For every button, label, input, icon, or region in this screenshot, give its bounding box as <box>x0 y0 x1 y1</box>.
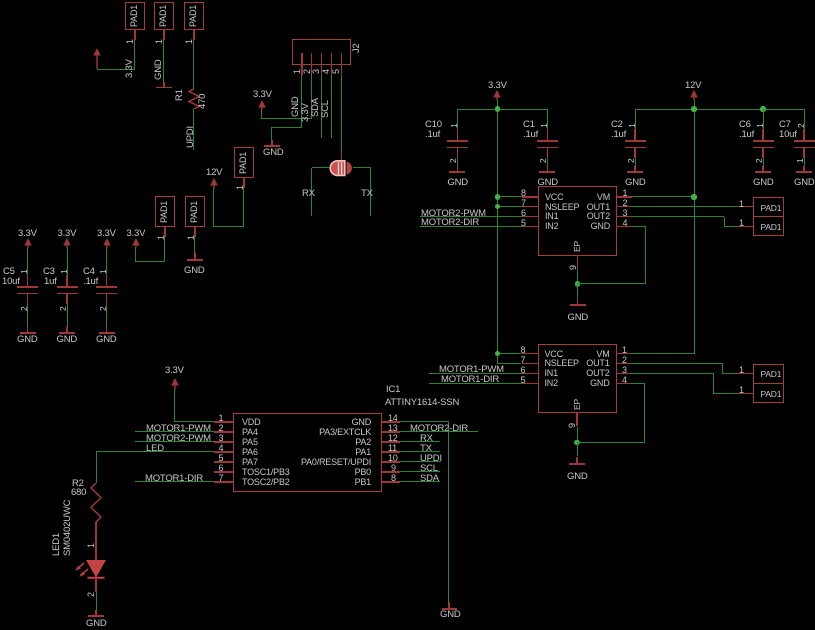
wire jumper left (RX) <box>312 167 330 168</box>
TX net label <box>361 189 373 199</box>
R2 name <box>72 479 84 489</box>
pin 2 label <box>20 306 29 311</box>
J2 pin 4 <box>331 53 332 65</box>
pin 1 label <box>450 123 459 128</box>
net MOTOR2-DIR wire <box>400 431 478 432</box>
net MOTOR1-PWM wire <box>135 431 214 432</box>
pin 2 label <box>59 306 68 311</box>
J2 pin 2 <box>311 53 312 65</box>
3.3V label <box>58 229 77 239</box>
wire to C5 <box>27 247 28 277</box>
supply +3.3V symbol <box>92 48 102 70</box>
net MOTOR1-DIR wire <box>135 481 214 482</box>
wire U2 OUT1 to pad <box>632 206 738 207</box>
capacitor C10 <box>457 129 458 140</box>
wire LED1 to GND <box>95 579 96 592</box>
wire rail to C7 <box>804 109 805 129</box>
connector pad PAD1 (PAD A) <box>125 2 145 30</box>
wire pin4 GND loop <box>632 226 646 227</box>
J2 pin5 wire to solder jumper <box>341 75 342 152</box>
C7 name <box>779 120 791 130</box>
pin label top <box>756 123 765 128</box>
connector pad PAD1 <box>753 383 784 403</box>
J2 pin 5 number <box>332 69 341 74</box>
connector pad PAD1 (PAD B) <box>154 2 174 30</box>
pin label bottom <box>755 158 764 163</box>
pin 1 label of PAD C <box>185 39 194 44</box>
wire IC1 GND pin14 <box>400 421 449 422</box>
SCL net label (rotated) <box>321 100 330 118</box>
pin 2 label <box>449 158 458 163</box>
R1 value 470 <box>198 94 207 109</box>
pin 1 label <box>60 269 69 274</box>
pin 1 stub <box>243 178 244 188</box>
connector pad PAD1 <box>753 364 784 384</box>
ground symbol <box>271 140 272 146</box>
wire 3.3V to U3 NSLEEP <box>497 363 521 364</box>
wire rail to C10 <box>457 109 458 129</box>
GND net label (rotated) <box>154 59 163 80</box>
LED label <box>146 444 164 454</box>
wire PAD F to GND <box>194 237 195 253</box>
connector J2 <box>292 39 351 65</box>
ground symbol <box>457 166 458 172</box>
U2 pin 5 IN2 <box>522 226 538 227</box>
net LED wire <box>96 451 214 452</box>
U2 EP pin 9 <box>577 256 578 269</box>
IC1 pin 2 PA4 <box>214 431 233 432</box>
C2 name <box>611 120 623 130</box>
U3 EP label (rotated) <box>573 399 582 410</box>
wire <box>136 261 165 262</box>
R2 value 680 <box>71 488 86 498</box>
pin label top <box>797 123 806 128</box>
U2 pin 4 GND <box>617 226 632 227</box>
wire rail to C1 <box>547 109 548 129</box>
wire <box>214 226 244 227</box>
wire EP down <box>577 427 578 443</box>
GND label <box>440 610 461 620</box>
capacitor C7 <box>803 129 804 140</box>
supply +3.3V symbol for C4 <box>102 238 112 248</box>
junction <box>575 281 580 286</box>
C4 name <box>83 267 95 277</box>
SDA label <box>420 474 439 484</box>
ground symbol <box>66 327 67 333</box>
ground symbol <box>577 298 578 305</box>
3.3V label <box>165 366 184 376</box>
supply +3.3V symbol for IC1 <box>170 378 180 391</box>
GND label <box>57 335 78 345</box>
U2 pin 3 OUT2 <box>617 216 632 217</box>
wire rail to C2 <box>635 109 636 129</box>
wire jumper right (TX) <box>353 167 372 168</box>
connector pad PAD1 (E) <box>155 196 175 227</box>
ground symbol <box>448 602 449 609</box>
IC1 pin 8 PB1 <box>382 481 400 482</box>
wire <box>213 189 214 227</box>
solder jumper SJ1 <box>328 159 355 177</box>
C7 value <box>779 130 797 140</box>
pin 1 label <box>20 269 29 274</box>
wire to GND <box>27 304 28 327</box>
wire to GND <box>106 304 107 327</box>
pin 1 label <box>87 543 96 548</box>
3.3V label <box>127 229 146 239</box>
U3 pin 7 NSLEEP <box>522 363 538 364</box>
supply +3.3V symbol for C5 <box>23 238 33 248</box>
pin label top <box>628 123 637 128</box>
ground symbol <box>547 166 548 172</box>
wire U2 OUT2 to pad <box>632 216 725 217</box>
ground symbol <box>106 327 107 333</box>
3.3V rail wire <box>457 109 547 110</box>
IC1 pin 12 PA2 <box>382 441 400 442</box>
pin 1 stub <box>164 227 165 237</box>
MOTOR2-DIR label <box>410 424 468 434</box>
C10 value <box>425 130 440 140</box>
wire <box>311 168 312 217</box>
motor driver IC U3 <box>538 344 617 414</box>
net SCL wire <box>400 471 440 472</box>
J2 pin 3 <box>321 53 322 65</box>
capacitor C1 <box>547 129 548 140</box>
J2 pin3 SDA wire <box>321 75 322 138</box>
wire to C3 <box>67 247 68 277</box>
capacitor C5 <box>27 275 28 286</box>
ground symbol <box>27 327 28 333</box>
net MOTOR2-PWM wire <box>135 441 214 442</box>
pin 1 stub <box>194 227 195 237</box>
net label MOTOR2-PWM <box>420 216 522 217</box>
net SDA wire <box>400 481 440 482</box>
IC1 pin 5 PA7 <box>214 461 233 462</box>
C6 name <box>739 120 751 130</box>
3.3V label <box>97 229 116 239</box>
wire EP to ground <box>577 284 578 298</box>
wire to GND <box>67 304 68 327</box>
connector pad PAD1 (F) <box>185 196 205 227</box>
wire PAD C to R1 <box>193 40 194 89</box>
wire to C4 <box>106 247 107 277</box>
wire to GND <box>804 158 805 166</box>
J2 pin1 wire to GND <box>301 75 302 127</box>
pin 1 label of PAD B <box>155 39 164 44</box>
C5 name <box>3 267 15 277</box>
U2 pin 6 IN1 <box>522 216 538 217</box>
GND label <box>753 178 774 188</box>
12V rail wire <box>635 109 804 110</box>
wire U3 VM to 12V <box>631 353 695 354</box>
GND label <box>794 178 815 188</box>
GND label <box>625 178 646 188</box>
pin 9 label <box>568 423 577 428</box>
net UPDI wire <box>400 461 441 462</box>
pad pin stub <box>737 206 753 207</box>
MOTOR2-PWM label <box>146 434 211 444</box>
UPDI net label (rotated) <box>186 126 195 148</box>
ground symbol <box>576 457 577 464</box>
wire PAD D to 12V <box>243 188 244 227</box>
U3 EP pin 9 <box>576 413 577 426</box>
GND label <box>537 178 558 188</box>
pin 1 stub of PAD A <box>134 30 135 40</box>
LED1 name (rotated) <box>52 533 61 556</box>
pin 1 stub of PAD B <box>163 30 164 40</box>
U2 pin 2 OUT1 <box>617 206 632 207</box>
pin 1 label <box>236 185 245 190</box>
net TX wire <box>400 451 440 452</box>
connector pad PAD1 (D) <box>234 147 254 178</box>
SCL label <box>420 464 438 474</box>
R1 name label <box>175 89 184 101</box>
microcontroller IC1 <box>233 413 382 492</box>
pin 9 label <box>569 265 578 270</box>
resistor R2 <box>90 483 102 522</box>
3.3V vertical wire <box>497 100 498 364</box>
wire 3.3V to U3 VCC <box>497 353 521 354</box>
GND label <box>96 335 117 345</box>
C3 name <box>43 267 55 277</box>
net label MOTOR1-PWM <box>429 373 522 374</box>
pin 1 label <box>99 269 108 274</box>
IC1 pin 6 TOSC1/PB3 <box>214 471 233 472</box>
wire to GND <box>547 158 548 166</box>
net RX wire <box>400 441 440 442</box>
pin 2 label <box>539 158 548 163</box>
IC1 pin 3 PA5 <box>214 441 233 442</box>
capacitor C3 <box>66 275 67 286</box>
J2 pin 1 number <box>293 69 302 74</box>
U3 pin 1 VM <box>617 353 632 354</box>
J2 pin 3 number <box>312 69 321 74</box>
U3 pin 6 IN1 <box>522 373 538 374</box>
wire <box>271 127 272 140</box>
wire <box>272 127 302 128</box>
pad pin stub <box>737 393 753 394</box>
LED1 value SM0402UWC (rotated) <box>63 500 72 556</box>
wire PAD B to GND <box>163 40 164 82</box>
supply +3.3V symbol <box>492 90 502 101</box>
ground symbol <box>95 610 96 616</box>
GND label <box>567 472 588 482</box>
connector pad PAD1 <box>753 216 784 236</box>
IC1 name <box>386 385 400 395</box>
U2 pin 7 NSLEEP <box>522 206 538 207</box>
U3 pin 4 GND <box>617 383 632 384</box>
wire PAD A to 3.3V <box>134 40 135 69</box>
12V label <box>206 168 222 178</box>
junction <box>574 440 579 445</box>
supply +3.3V symbol <box>257 100 267 111</box>
J2 pin 4 number <box>322 69 331 74</box>
wire <box>262 118 312 119</box>
wire <box>370 168 371 217</box>
wire to GND <box>457 158 458 166</box>
J2 pin 2 number <box>303 69 312 74</box>
12V label <box>685 81 701 91</box>
wire U3 OUT2 to pad <box>631 373 714 374</box>
RX net label <box>302 189 315 199</box>
C6 value <box>739 130 754 140</box>
ground symbol <box>803 166 804 172</box>
connector pad PAD1 (PAD C) <box>184 2 204 30</box>
C1 value <box>523 130 538 140</box>
SDA net label (rotated) <box>311 98 320 117</box>
supply +12V symbol <box>209 178 219 190</box>
ground symbol <box>762 166 763 172</box>
wire R1 to UPDI <box>193 109 194 150</box>
TX label <box>420 444 432 454</box>
RX label <box>420 434 433 444</box>
LED LED1 <box>70 556 110 584</box>
junction <box>760 106 765 111</box>
U3 pin 5 IN2 <box>522 383 538 384</box>
capacitor C2 <box>634 129 635 140</box>
12V vertical wire <box>694 100 695 354</box>
GND label <box>184 266 205 276</box>
wire U3 OUT1 to pad <box>631 363 723 364</box>
3.3V net label (rotated) <box>125 59 134 78</box>
junction <box>495 106 500 111</box>
supply +3.3V symbol <box>131 238 141 248</box>
pin 1 stub of PAD C <box>193 30 194 40</box>
ground symbol <box>194 253 195 260</box>
U3 pin 2 OUT1 <box>617 363 632 364</box>
IC1 value ATTINY1614-SSN <box>385 398 459 408</box>
wire <box>135 247 136 262</box>
pin 1 label of PAD A <box>126 39 135 44</box>
IC1 pin 14 GND <box>382 421 400 422</box>
motor driver IC U2 <box>538 186 617 256</box>
U2 pin 8 VCC <box>522 196 538 197</box>
GND net label (rotated) <box>291 96 300 117</box>
supply +3.3V symbol for C3 <box>62 238 72 248</box>
3.3V label <box>18 229 37 239</box>
U3 pin 3 OUT2 <box>617 373 632 374</box>
wire EP down <box>577 269 578 284</box>
U2 pin 1 VM <box>617 196 632 197</box>
C5 value <box>2 277 20 287</box>
wire pin4 GND loop <box>631 383 645 384</box>
pad pin 1 label <box>739 218 744 228</box>
ground symbol <box>163 82 164 87</box>
IC1 pin 7 TOSC2/PB2 <box>214 481 233 482</box>
pin label bottom <box>796 158 805 163</box>
wire 3.3V to VDD <box>174 390 175 422</box>
supply +12V symbol <box>689 90 699 101</box>
J2 pin2 wire to 3.3V <box>311 75 312 119</box>
wire U2 VM to 12V <box>632 196 695 197</box>
UPDI label <box>420 454 442 464</box>
resistor R1 <box>188 89 200 109</box>
pin 1 label <box>187 235 196 240</box>
capacitor C4 <box>106 275 107 286</box>
wire to GND <box>635 158 636 166</box>
wire R2 to LED1 <box>95 522 96 560</box>
net label MOTOR1-DIR <box>429 383 522 384</box>
GND label <box>17 335 38 345</box>
J2 name label <box>352 43 361 53</box>
pad pin 1 label <box>739 365 744 375</box>
IC1 pin 4 PA6 <box>214 451 233 452</box>
wire <box>97 69 135 70</box>
wire rail to C6 <box>763 109 764 129</box>
GND label <box>568 313 589 323</box>
C1 name <box>523 120 535 130</box>
MOTOR1-PWM label <box>146 424 211 434</box>
MOTOR1-DIR label <box>145 474 203 484</box>
3.3V label <box>488 81 507 91</box>
pad pin 1 label <box>739 199 744 209</box>
pin 1 label <box>157 235 166 240</box>
3.3V net label (rotated) <box>301 103 310 122</box>
wire 3.3V to U2 VCC <box>497 196 522 197</box>
wire <box>261 110 262 119</box>
IC1 pin 9 PB0 <box>382 471 400 472</box>
U2 EP label (rotated) <box>573 241 582 252</box>
C2 value <box>611 130 626 140</box>
3.3V label <box>253 90 272 100</box>
capacitor C6 <box>762 129 763 140</box>
U3 pin 8 VCC <box>522 353 538 354</box>
pad pin 1 label <box>739 385 744 395</box>
wire PAD E to 3.3V <box>164 237 165 262</box>
IC1 pin 1 VDD <box>214 421 233 422</box>
wire 3.3V to U2 NSLEEP <box>497 206 522 207</box>
C10 name <box>425 120 442 130</box>
wire to GND <box>763 158 764 166</box>
wire EP to ground <box>577 442 578 456</box>
connector pad PAD1 <box>753 197 784 217</box>
pin label bottom <box>627 158 636 163</box>
C3 value <box>44 277 57 287</box>
pin 1 label <box>540 123 549 128</box>
pad pin stub <box>737 373 753 374</box>
IC1 pin 10 PA0/RESET/UPDI <box>382 461 400 462</box>
net label MOTOR2-DIR <box>420 226 522 227</box>
J2 pin 1 <box>301 53 302 65</box>
wire LED net down <box>96 452 97 483</box>
GND label <box>86 619 107 629</box>
junction <box>691 106 696 111</box>
GND label <box>447 178 468 188</box>
pin 2 label <box>87 592 96 597</box>
pin 2 label <box>99 306 108 311</box>
J2 pin 5 <box>341 53 342 65</box>
ground symbol <box>634 166 635 172</box>
J2 pin4 SCL wire <box>331 75 332 138</box>
IC1 pin 13 PA3/EXTCLK <box>382 431 400 432</box>
GND label <box>263 148 284 158</box>
C4 value <box>83 277 98 287</box>
IC1 pin 11 PA1 <box>382 451 400 452</box>
pad pin stub <box>737 226 753 227</box>
